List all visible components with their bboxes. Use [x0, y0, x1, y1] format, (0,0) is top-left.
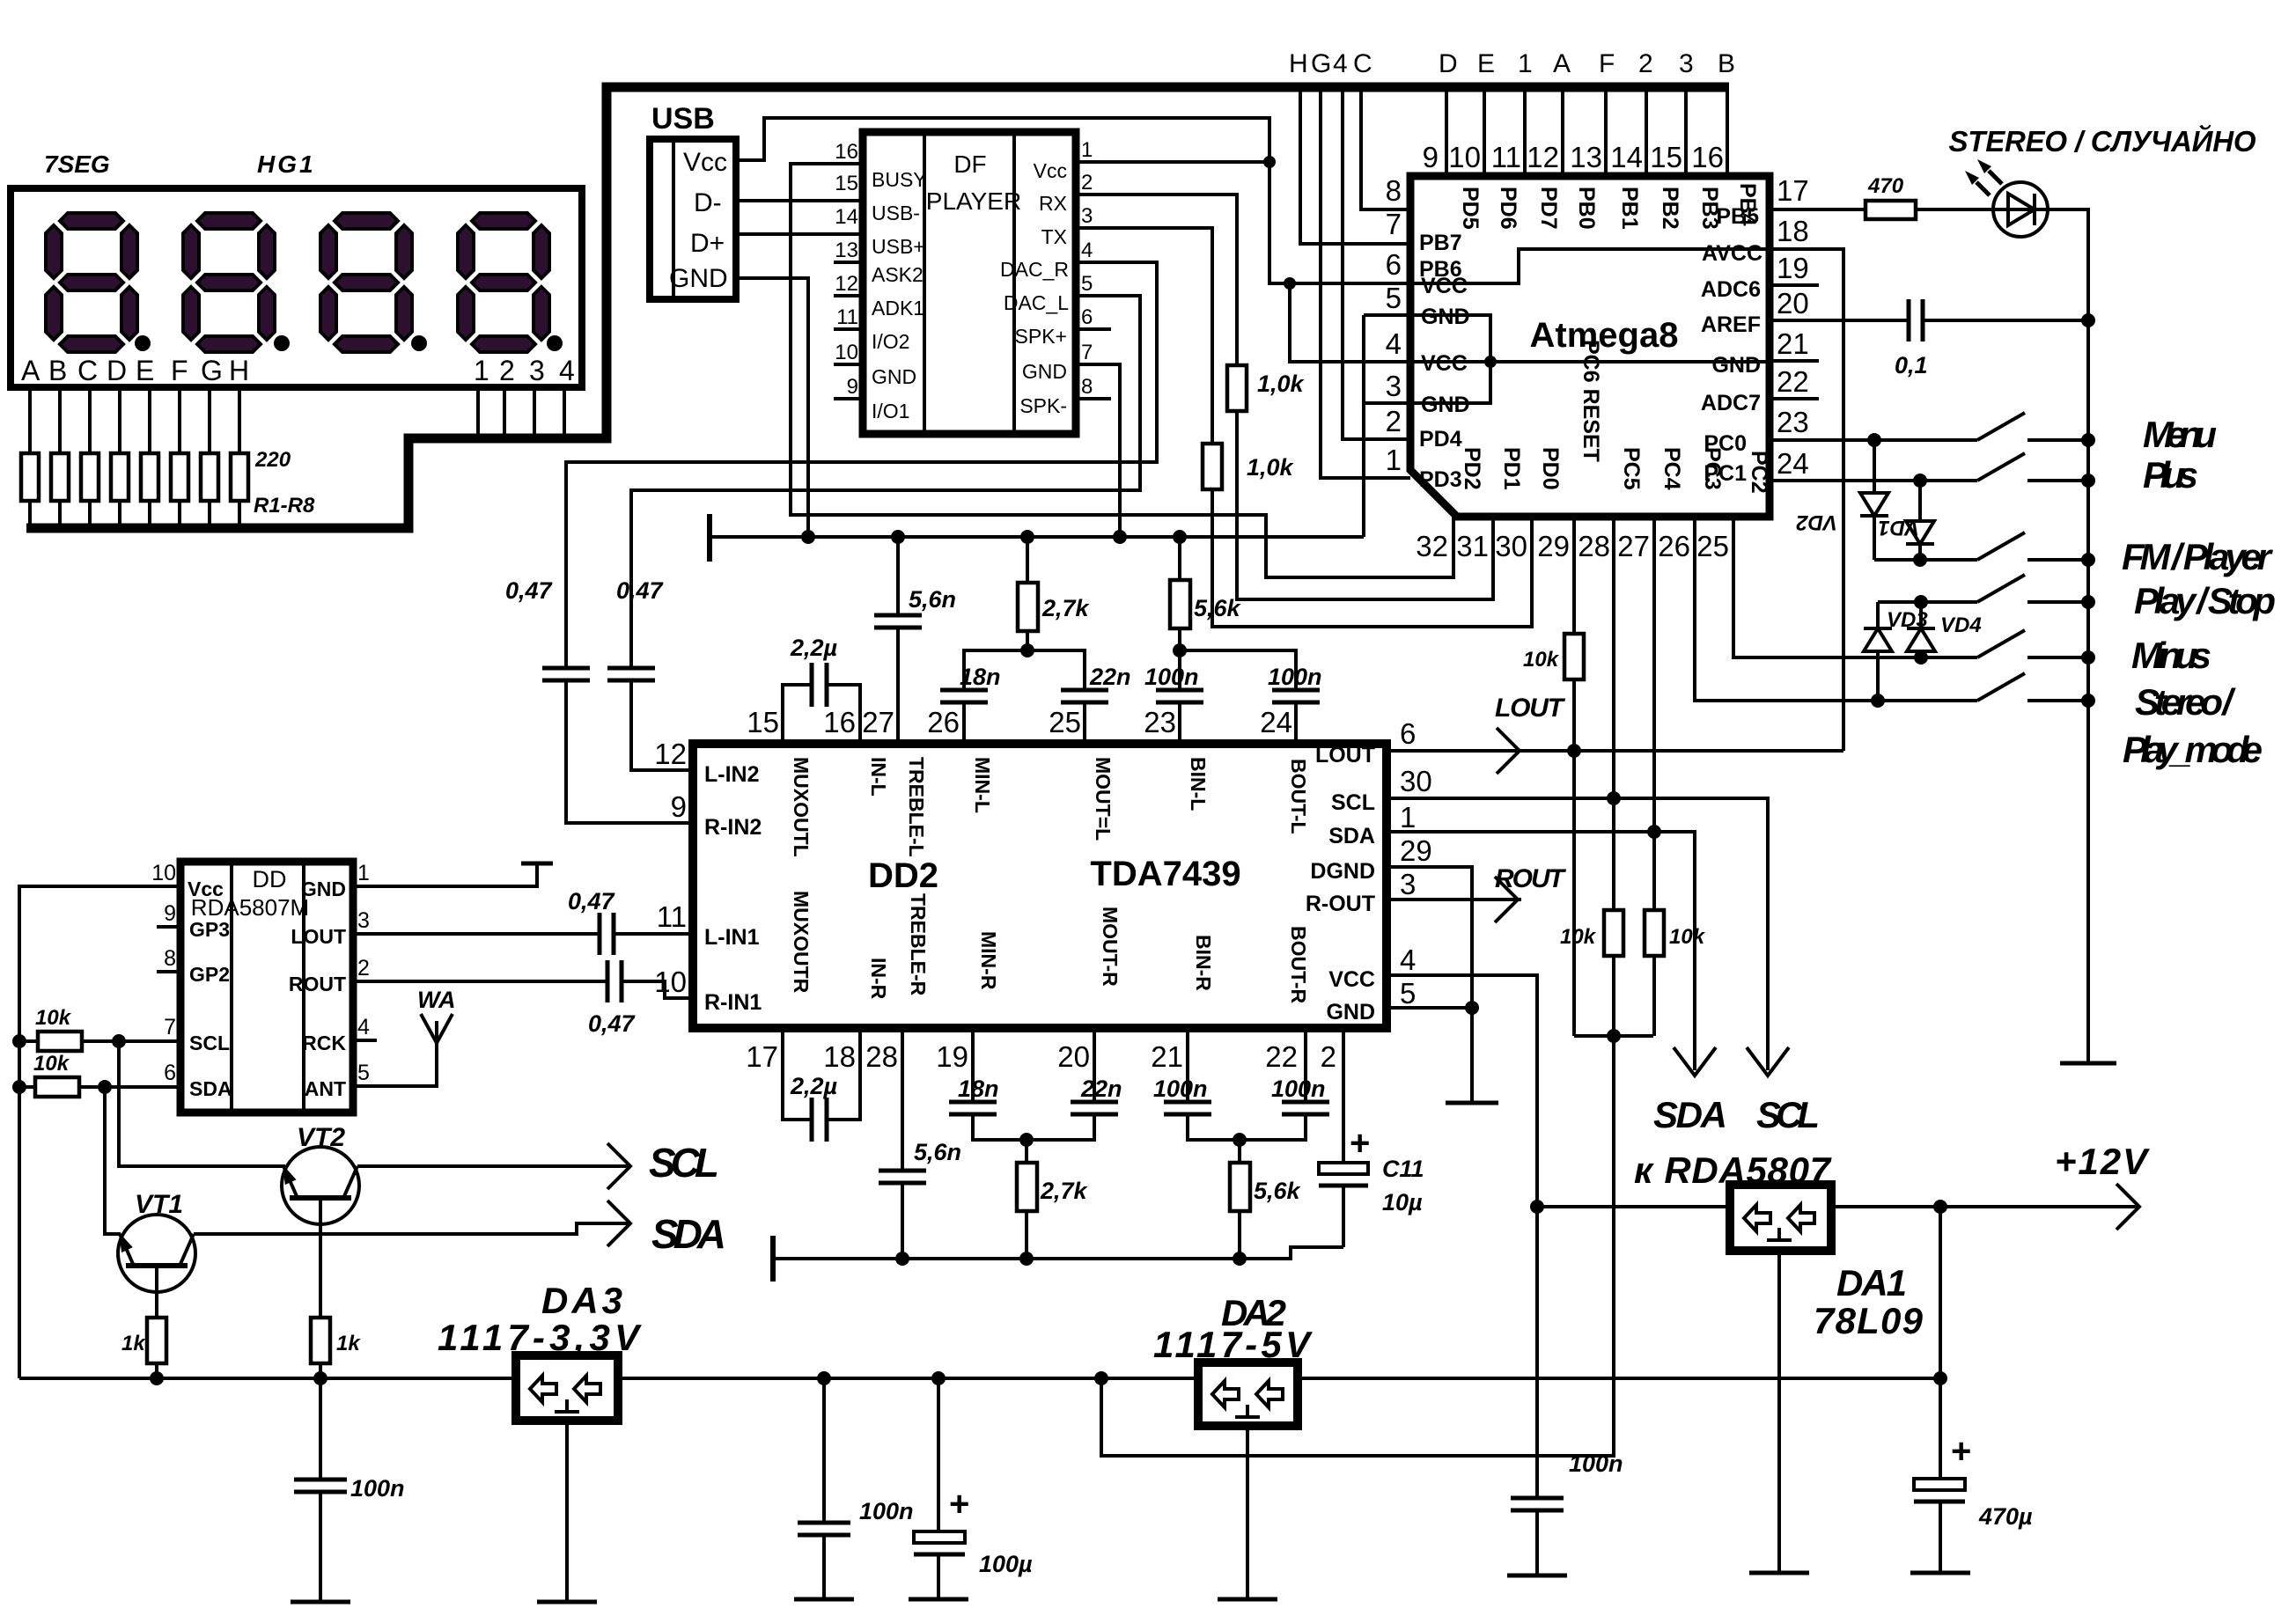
- decimal point 4: [547, 335, 563, 351]
- wire R8 to bus: [238, 501, 241, 528]
- svg-text:FM / Player: FM / Player: [2122, 536, 2274, 577]
- svg-text:SDA: SDA: [651, 1211, 726, 1257]
- right pin numbers 17-24: [1777, 174, 1809, 480]
- wire bus drop H to Atmega pin7: [1300, 92, 1410, 244]
- junction DGND GND: [1465, 1001, 1479, 1015]
- svg-text:27: 27: [862, 706, 894, 738]
- wire USB Vcc to VCC net: [736, 118, 1410, 283]
- wire segment H pin to R8: [238, 387, 241, 453]
- svg-text:G: G: [1311, 49, 1331, 78]
- connector USB: [650, 102, 736, 299]
- junction bus Minus: [2081, 650, 2095, 665]
- pin stub DF 10 GND: [834, 363, 863, 366]
- regulator DA3 1117-3,3V: [438, 1280, 642, 1602]
- svg-text:1: 1: [1081, 138, 1093, 162]
- ground bar: [1507, 1574, 1567, 1578]
- wire R4 to bus: [118, 501, 121, 528]
- svg-text:RCK: RCK: [302, 1032, 346, 1054]
- diode VD3: [1864, 602, 1928, 701]
- resistor 5,6k (bottom): [1230, 1140, 1302, 1259]
- svg-text:2: 2: [499, 355, 515, 386]
- svg-text:DF: DF: [953, 151, 986, 178]
- arrow SDA down: [1674, 1047, 1716, 1076]
- svg-text:4: 4: [1333, 49, 1348, 78]
- svg-text:3: 3: [1386, 370, 1402, 402]
- svg-text:5: 5: [357, 1061, 370, 1085]
- analog ground rail (bottom): [773, 1236, 1343, 1282]
- capacitor C11 10u: [1319, 1028, 1424, 1247]
- wire segment C pin to R3: [88, 387, 92, 453]
- svg-text:PC2: PC2: [1747, 451, 1771, 494]
- decimal point 3: [411, 335, 427, 351]
- USB body: [650, 139, 736, 299]
- svg-text:VD2: VD2: [1796, 510, 1837, 534]
- svg-text:3: 3: [529, 355, 545, 386]
- svg-text:10: 10: [835, 341, 858, 364]
- svg-text:USB: USB: [651, 102, 715, 136]
- svg-text:3: 3: [1679, 49, 1694, 78]
- junction bus Plus: [2081, 474, 2095, 488]
- junction bus Play: [2081, 595, 2095, 609]
- ground bar 470u: [1910, 1571, 1970, 1575]
- junction 100u 5V: [931, 1371, 946, 1385]
- svg-text:MOUT-R: MOUT-R: [1099, 907, 1122, 987]
- svg-text:100n: 100n: [350, 1475, 405, 1502]
- ground bar DA2: [1218, 1597, 1277, 1602]
- svg-text:1k: 1k: [121, 1332, 146, 1355]
- svg-text:10k: 10k: [1669, 925, 1706, 949]
- pin stub Atmega5 GND to ground riser: [1364, 313, 1410, 317]
- antenna WA: [353, 987, 456, 1086]
- wire Atmega24 PC1 to Plus switch: [1770, 479, 1977, 482]
- ground terminal bar RDA: [521, 862, 553, 866]
- wire TDA R-OUT pin3: [1387, 898, 1521, 901]
- svg-text:+: +: [1350, 1124, 1370, 1163]
- svg-text:5,6k: 5,6k: [1194, 595, 1242, 621]
- wire Atmega26 PC3 to Stereo switch: [1695, 517, 1977, 701]
- wire DF DAC_R to coupling cap: [566, 262, 1157, 668]
- svg-text:6: 6: [1400, 717, 1416, 750]
- svg-text:SDA: SDA: [1328, 824, 1375, 848]
- wire bus drop B to pin16: [1726, 92, 1729, 176]
- wire diodes to FM/Player switch: [1874, 558, 1977, 562]
- resistor 1,0k (TX): [1203, 444, 1222, 489]
- wire LED cathode to button bus: [2048, 209, 2088, 1063]
- svg-text:TDA7439: TDA7439: [1090, 855, 1240, 893]
- digit 2 segments: [183, 213, 275, 352]
- resistor 10k (RESET): [1564, 634, 1584, 679]
- junction 9V node: [1530, 1200, 1544, 1214]
- svg-text:2,7k: 2,7k: [1040, 1178, 1089, 1204]
- resistor 470: [1865, 201, 1916, 219]
- svg-text:18: 18: [1777, 215, 1809, 247]
- svg-text:DAC_R: DAC_R: [1000, 258, 1069, 281]
- internal wire VCC pin6 to AVCC pin18: [1410, 249, 1770, 283]
- svg-text:I/O2: I/O2: [872, 330, 909, 353]
- svg-text:2: 2: [1386, 405, 1402, 437]
- svg-text:SPK+: SPK+: [1015, 325, 1067, 348]
- svg-text:DA1: DA1: [1836, 1262, 1907, 1304]
- left pin labels: [188, 878, 232, 1100]
- svg-text:GND: GND: [1326, 1000, 1375, 1024]
- junction VD4 bottom: [1914, 650, 1928, 665]
- svg-text:18: 18: [823, 1040, 856, 1073]
- wire R7 to bus: [208, 501, 211, 528]
- wire Atmega27 PC4 to pull-up: [1652, 517, 1656, 910]
- bottom pin numbers 32-25: [1416, 530, 1729, 562]
- svg-text:16: 16: [1691, 141, 1724, 173]
- svg-text:MOUT=L: MOUT=L: [1092, 757, 1115, 841]
- switch Plus: [1977, 453, 2088, 481]
- svg-text:+12V: +12V: [2055, 1141, 2150, 1182]
- LED HL1 stereo indicator: [1965, 159, 2048, 237]
- wire VCC branch to Atmega pin4: [1290, 283, 1410, 362]
- svg-text:3: 3: [357, 908, 370, 933]
- svg-text:Menu: Menu: [2143, 414, 2217, 455]
- svg-text:Atmega8: Atmega8: [1530, 316, 1679, 355]
- ground bar DA1: [1749, 1571, 1809, 1575]
- svg-text:26: 26: [1658, 530, 1690, 562]
- resistor R4: [111, 453, 129, 501]
- svg-text:2: 2: [1081, 171, 1093, 195]
- left pin numbers: [654, 738, 687, 998]
- svg-text:1k: 1k: [336, 1332, 361, 1355]
- right pin labels: [289, 878, 347, 1100]
- svg-text:GND: GND: [1022, 360, 1067, 383]
- arrow +12V: [2116, 1184, 2139, 1230]
- top pin numbers: [747, 706, 1292, 738]
- segment signal bus (thick L from 7-seg resistors up to top bus): [26, 87, 1729, 528]
- svg-text:9: 9: [164, 901, 176, 926]
- wire bus drop A to pin12: [1561, 92, 1564, 176]
- svg-text:SDA: SDA: [1653, 1094, 1727, 1135]
- IC DD RDA5807M: [151, 861, 370, 1113]
- svg-text:BIN-R: BIN-R: [1192, 935, 1215, 991]
- junction 5,6k caps: [1173, 643, 1187, 657]
- wire segment D pin to R4: [118, 387, 121, 453]
- svg-text:H: H: [1289, 49, 1308, 78]
- svg-text:30: 30: [1400, 765, 1432, 797]
- right pin labels: [1306, 743, 1375, 1024]
- wire DF BUSY to Atmega PD2 pin32: [791, 164, 1453, 577]
- svg-text:32: 32: [1416, 530, 1448, 562]
- svg-text:10k: 10k: [33, 1052, 70, 1076]
- wire Atmega25 PC2 to Minus switch: [1733, 517, 1977, 657]
- svg-text:6: 6: [164, 1061, 176, 1085]
- svg-text:17: 17: [746, 1040, 778, 1073]
- right pin labels: [1701, 204, 1762, 486]
- svg-text:G: G: [201, 355, 223, 386]
- wire bus drop 2 to pin14: [1645, 92, 1648, 176]
- svg-text:VCC: VCC: [1328, 967, 1375, 992]
- svg-text:78L09: 78L09: [1814, 1300, 1924, 1341]
- svg-text:PC4: PC4: [1659, 447, 1684, 490]
- svg-text:2,2µ: 2,2µ: [790, 635, 838, 661]
- svg-text:0,47: 0,47: [568, 888, 616, 914]
- wire digit pin 2 to bus: [503, 387, 506, 438]
- +3,3V rail: [19, 1377, 516, 1380]
- svg-text:BUSY: BUSY: [872, 168, 927, 191]
- regulator DA1 78L09: [1730, 1185, 1924, 1573]
- svg-text:470µ: 470µ: [1978, 1503, 2033, 1530]
- wire digit pin 1 to bus: [476, 387, 480, 438]
- svg-text:PD1: PD1: [1499, 447, 1524, 490]
- junction VD1 bottom: [1913, 553, 1927, 567]
- svg-text:USB+: USB+: [872, 235, 925, 258]
- svg-text:ROUT: ROUT: [1495, 864, 1567, 893]
- svg-text:GP2: GP2: [189, 963, 230, 986]
- wire TDA DGND pin29 to ground: [1387, 867, 1472, 1103]
- pin stub DF 12 ADK1: [834, 294, 863, 297]
- svg-text:SCL: SCL: [189, 1032, 230, 1054]
- pin stub DF 13 ASK2: [834, 261, 863, 264]
- capacitor 0,47 (DAC_L): [607, 577, 665, 680]
- wire 9V to DA1 output: [1537, 1205, 1730, 1208]
- wire resistor to LED: [1916, 208, 1994, 211]
- bottom pin numbers: [746, 1040, 1336, 1073]
- wire +12V to 470u: [1939, 1207, 1942, 1479]
- resistor 10k (SDA): [1645, 910, 1664, 956]
- resistor 1,0k (RX): [1227, 365, 1247, 411]
- wire +3,3V to RDA Vcc: [19, 886, 180, 1378]
- svg-text:100n: 100n: [1569, 1450, 1623, 1477]
- resistor 1k (VT1): [147, 1318, 166, 1363]
- wire cap to TDA R-IN1 pin10: [622, 981, 693, 998]
- svg-text:PD4: PD4: [1419, 427, 1462, 452]
- pin stub RDA GP2: [157, 970, 180, 973]
- svg-text:B: B: [1718, 49, 1735, 78]
- svg-text:AREF: AREF: [1701, 312, 1761, 337]
- svg-text:LOUT: LOUT: [291, 925, 346, 948]
- svg-text:18n: 18n: [958, 1076, 999, 1102]
- svg-text:Plus: Plus: [2143, 454, 2198, 496]
- svg-text:STEREO / СЛУЧАЙНО: STEREO / СЛУЧАЙНО: [1949, 124, 2256, 158]
- wire DA2 input from +12V: [1298, 1377, 1940, 1380]
- decimal point 2: [274, 335, 290, 351]
- svg-text:DA3: DA3: [541, 1280, 622, 1321]
- ground bar DA3: [537, 1600, 597, 1605]
- wire USB GND to analog ground rail: [736, 278, 808, 537]
- switch Play/Stop: [1977, 575, 2088, 602]
- wire Atmega28 PC5 to pull-up: [1612, 517, 1615, 910]
- svg-text:1,0k: 1,0k: [1247, 454, 1295, 481]
- svg-text:10k: 10k: [35, 1006, 72, 1030]
- capacitor 2,2u (bottom): [783, 1028, 860, 1142]
- resistor 5,6k (top): [1170, 537, 1242, 650]
- svg-text:PC3: PC3: [1700, 447, 1725, 490]
- svg-text:PD5: PD5: [1458, 187, 1483, 230]
- svg-text:C11: C11: [1382, 1156, 1424, 1182]
- svg-text:ROUT: ROUT: [289, 973, 346, 995]
- analog ground rail (top): [710, 514, 1364, 562]
- display HG1 7-segment block: [11, 151, 582, 387]
- wire VD3 VD4 tops to Play/Stop switch: [1878, 600, 1977, 604]
- svg-text:GND: GND: [669, 264, 728, 293]
- svg-text:11: 11: [657, 900, 687, 933]
- wire ground rail: [710, 535, 1364, 539]
- wire bus drop E to pin10: [1483, 92, 1486, 176]
- svg-text:PD7: PD7: [1536, 187, 1561, 230]
- svg-text:WA: WA: [417, 987, 456, 1013]
- svg-text:1: 1: [357, 861, 370, 885]
- svg-text:Play / Stop: Play / Stop: [2134, 580, 2276, 621]
- resistor R8: [231, 453, 248, 501]
- svg-text:0,47: 0,47: [616, 577, 665, 604]
- svg-text:0,47: 0,47: [588, 1010, 637, 1037]
- wire USB D+ to DF USB+: [736, 232, 863, 236]
- svg-text:C: C: [1353, 49, 1372, 78]
- svg-text:6: 6: [1081, 305, 1093, 329]
- wire VT2 collector to SCL arrow: [357, 1164, 630, 1168]
- svg-text:15: 15: [1650, 141, 1682, 173]
- svg-text:7SEG: 7SEG: [44, 151, 110, 178]
- svg-text:8: 8: [1081, 375, 1093, 399]
- svg-text:DAC_L: DAC_L: [1004, 291, 1069, 314]
- wire TDA SDA pin1 to SDA drop: [1387, 832, 1695, 1070]
- wire R6 to bus: [178, 501, 181, 528]
- svg-text:11: 11: [1491, 141, 1521, 173]
- svg-text:1: 1: [1400, 801, 1416, 834]
- svg-text:10: 10: [151, 861, 176, 885]
- svg-text:24: 24: [1260, 706, 1292, 738]
- ground bar of button bus: [2060, 1061, 2116, 1066]
- svg-text:100µ: 100µ: [979, 1551, 1033, 1577]
- svg-text:SCL: SCL: [1331, 790, 1375, 815]
- svg-text:GND: GND: [301, 878, 346, 900]
- ground terminal bar: [770, 1236, 776, 1282]
- junction SDA PC4: [1647, 825, 1661, 839]
- svg-text:11: 11: [836, 305, 858, 329]
- bus signal letters H G 4 C D E 1 A F 2 3 B: [1289, 49, 1735, 78]
- pin stub DF 9 I/O1: [834, 397, 863, 400]
- junction +12 470u: [1933, 1200, 1947, 1214]
- svg-text:MUXOUTL: MUXOUTL: [790, 757, 813, 857]
- svg-text:1: 1: [1518, 49, 1533, 78]
- svg-text:20: 20: [1057, 1040, 1090, 1073]
- wire pull-up common to +5V: [1574, 1034, 1653, 1038]
- junction 470u: [1933, 1371, 1947, 1385]
- wire segment E pin to R5: [148, 387, 151, 453]
- svg-text:21: 21: [1151, 1040, 1183, 1073]
- svg-text:2: 2: [357, 956, 370, 980]
- svg-text:22: 22: [1777, 365, 1809, 398]
- arrow LOUT: [1497, 728, 1520, 774]
- svg-text:I/O1: I/O1: [872, 400, 909, 422]
- svg-text:14: 14: [1610, 141, 1643, 173]
- resistor R1: [21, 453, 39, 501]
- svg-text:GND: GND: [1711, 353, 1761, 378]
- svg-text:C: C: [77, 355, 98, 386]
- svg-text:SPK-: SPK-: [1019, 394, 1067, 417]
- svg-text:24: 24: [1777, 447, 1809, 480]
- transistor VT2: [277, 1123, 359, 1318]
- svg-text:PLAYER: PLAYER: [926, 187, 1021, 215]
- svg-text:10k: 10k: [1523, 648, 1560, 672]
- svg-text:PB0: PB0: [1574, 187, 1599, 230]
- decimal point 1: [135, 335, 151, 351]
- capacitor 100n (9V): [1507, 1207, 1623, 1575]
- svg-text:PD3: PD3: [1419, 467, 1462, 492]
- svg-text:20: 20: [1777, 287, 1809, 319]
- svg-text:+: +: [1951, 1432, 1971, 1471]
- svg-text:100n: 100n: [1144, 664, 1199, 690]
- svg-text:AVCC: AVCC: [1702, 241, 1762, 266]
- svg-text:16: 16: [835, 140, 858, 164]
- pin numbers right: [357, 861, 370, 1085]
- svg-text:Vcc: Vcc: [188, 878, 224, 900]
- svg-text:22: 22: [1265, 1040, 1298, 1073]
- svg-text:9: 9: [847, 375, 858, 399]
- ground bar: [291, 1600, 350, 1605]
- svg-text:PB1: PB1: [1617, 187, 1642, 230]
- svg-text:4: 4: [1081, 239, 1093, 262]
- svg-text:18n: 18n: [960, 664, 1001, 690]
- svg-text:22n: 22n: [1080, 1076, 1122, 1102]
- svg-text:TX: TX: [1041, 225, 1067, 248]
- svg-text:ADK1: ADK1: [872, 297, 924, 319]
- switch FM/Player: [1977, 532, 2088, 560]
- svg-text:12: 12: [654, 738, 687, 770]
- svg-text:GP3: GP3: [189, 918, 230, 941]
- svg-text:12: 12: [1527, 141, 1559, 173]
- resistor 10k (RDA SCL): [12, 1006, 180, 1051]
- wire SCL to VT2: [119, 1041, 285, 1166]
- svg-text:19: 19: [936, 1040, 968, 1073]
- resistor 2,7k (bottom): [1017, 1140, 1089, 1259]
- junction VT1 emitter: [150, 1371, 164, 1385]
- ground bar: [794, 1597, 854, 1602]
- top pin numbers 9-16: [1423, 141, 1724, 173]
- svg-text:6: 6: [1386, 248, 1402, 281]
- svg-text:22n: 22n: [1089, 664, 1131, 690]
- svg-text:2: 2: [1638, 49, 1653, 78]
- svg-text:Stereo /: Stereo /: [2135, 681, 2236, 723]
- wire ground riser to analog rail: [1362, 315, 1365, 537]
- svg-text:1: 1: [474, 355, 489, 386]
- svg-text:8: 8: [164, 946, 176, 971]
- svg-text:2,2µ: 2,2µ: [790, 1073, 838, 1099]
- resistor R6: [171, 453, 188, 501]
- pin stub Atmega19 ADC6: [1770, 283, 1819, 287]
- pin stub Atmega22 ADC7: [1770, 397, 1819, 400]
- svg-text:25: 25: [1696, 530, 1729, 562]
- digit 3 segments: [320, 213, 412, 352]
- wire RDA GND to ground terminal: [353, 863, 537, 886]
- wire R3 to bus: [88, 501, 92, 528]
- svg-text:9: 9: [671, 790, 687, 823]
- svg-text:R-IN2: R-IN2: [704, 815, 762, 840]
- wire SDA to VT1: [105, 1087, 121, 1234]
- regulator DA2 1117-5V: [1153, 1292, 1313, 1599]
- wire bus drop F to pin13: [1604, 92, 1608, 176]
- svg-text:14: 14: [835, 205, 858, 229]
- junction pull-up feed: [1094, 1371, 1108, 1385]
- wire Atmega23 PC0 to Menu switch: [1770, 438, 1977, 442]
- junction VT2 emitter: [313, 1371, 327, 1385]
- svg-text:31: 31: [1456, 530, 1489, 562]
- wire bus drop C to Atmega pin8: [1361, 92, 1410, 209]
- svg-text:7: 7: [1386, 208, 1402, 240]
- resistor R3: [81, 453, 99, 501]
- junction VD4 top: [1914, 595, 1928, 609]
- svg-text:PB7: PB7: [1419, 231, 1462, 255]
- svg-text:D: D: [107, 355, 127, 386]
- svg-text:HG1: HG1: [257, 151, 316, 178]
- svg-text:5: 5: [1081, 272, 1093, 296]
- internal wire VCC pin4 row: [1410, 360, 1770, 364]
- wire TDA SCL pin30 to SCL drop: [1387, 798, 1768, 1070]
- resistor 10k (SCL): [1604, 910, 1623, 956]
